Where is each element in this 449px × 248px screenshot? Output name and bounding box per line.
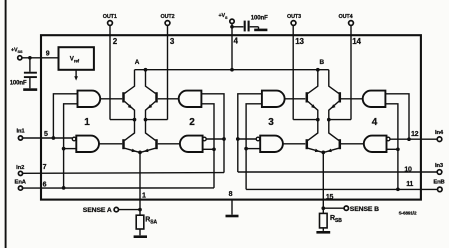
pin 5 xyxy=(44,131,48,138)
wire OUT4 pin 14 xyxy=(329,25,351,119)
pin 4 xyxy=(234,37,239,46)
and gate 2 xyxy=(179,91,202,128)
wire In2 pin 7 xyxy=(23,94,226,174)
IC outline box xyxy=(41,35,421,199)
svg-text:RSA: RSA xyxy=(145,217,157,226)
transistor Q1 (upper left, bridge) xyxy=(124,70,135,120)
and gate 4' (lower driver) xyxy=(364,136,390,152)
terminal In3 xyxy=(435,163,444,174)
terminal OUT1 xyxy=(103,14,117,26)
ground (Vs cap) xyxy=(254,29,267,32)
and gate 3' (lower driver) xyxy=(256,136,283,152)
pin 7 xyxy=(43,164,47,171)
svg-text:OUT3: OUT3 xyxy=(287,14,301,20)
wire GND pin 8 xyxy=(231,200,233,215)
and gate 3 xyxy=(262,91,285,128)
svg-text:2: 2 xyxy=(113,37,118,46)
wire emitter junction to sense xyxy=(321,151,325,209)
svg-text:A: A xyxy=(135,59,140,66)
transistor Q5 (upper left, bridge) xyxy=(307,70,318,120)
svg-text:6: 6 xyxy=(43,181,47,188)
svg-text:15: 15 xyxy=(326,194,334,201)
terminal In4 xyxy=(435,130,444,142)
pin 9 xyxy=(46,50,50,57)
terminal +Vss xyxy=(11,47,23,60)
and gate 1' (lower driver) xyxy=(72,136,99,152)
pin 1 xyxy=(142,192,146,199)
Vref output arrow xyxy=(74,70,78,81)
wire sense A xyxy=(119,208,142,212)
svg-text:2: 2 xyxy=(189,117,195,128)
terminal OUT2 xyxy=(161,14,175,26)
wire gate1 output to Q1 base xyxy=(100,98,122,100)
resistor RSB xyxy=(320,208,343,231)
wire gate1' output to Q3 base xyxy=(99,143,122,145)
wire gate2 output to Q2 base xyxy=(158,98,179,100)
terminal In1 xyxy=(16,129,25,140)
wire EnB pin 11 xyxy=(244,104,437,191)
ground (RSB) xyxy=(316,231,330,234)
svg-text:9: 9 xyxy=(46,50,50,57)
svg-text:+VSS: +VSS xyxy=(11,47,23,54)
wire In1 pin 5 xyxy=(23,94,78,140)
ground (Vss cap) xyxy=(23,88,37,91)
wire gate3' output to Q7 base xyxy=(283,143,305,145)
pin 6 xyxy=(43,181,47,188)
pin 11 xyxy=(406,181,413,188)
terminal EnB xyxy=(433,179,444,191)
terminal EnA xyxy=(15,180,27,191)
pin 2 xyxy=(113,37,118,46)
wire output tee xyxy=(133,118,148,122)
wire OUT2 pin 3 xyxy=(146,25,168,119)
svg-text:11: 11 xyxy=(406,181,413,188)
wire emitter junction to sense xyxy=(138,151,142,210)
svg-text:13: 13 xyxy=(295,37,304,46)
svg-text:1: 1 xyxy=(84,117,90,128)
svg-text:OUT4: OUT4 xyxy=(339,14,353,20)
svg-text:In3: In3 xyxy=(435,163,444,169)
svg-text:RSB: RSB xyxy=(330,215,342,224)
svg-text:12: 12 xyxy=(411,131,419,138)
transistor Q2 (upper right, bridge) xyxy=(146,70,157,120)
svg-text:Vref: Vref xyxy=(70,56,80,64)
and gate 1 xyxy=(78,91,101,128)
svg-text:100nF: 100nF xyxy=(251,15,268,21)
terminal SENSE B xyxy=(344,206,379,213)
svg-text:EnA: EnA xyxy=(15,180,27,186)
ground (pin 8) xyxy=(226,215,239,218)
node A xyxy=(135,59,140,66)
wire gate4 output to Q6 base xyxy=(341,98,363,100)
svg-text:7: 7 xyxy=(43,164,47,171)
wire sense B xyxy=(321,206,344,210)
svg-text:S-6891/2: S-6891/2 xyxy=(399,210,417,215)
transistor Q8 (lower right, bridge) xyxy=(324,120,340,154)
terminal SENSE A xyxy=(83,207,119,214)
transistor Q4 (lower right, bridge) xyxy=(140,120,156,154)
wire gate2' output to Q4 base xyxy=(158,143,180,145)
pin 3 xyxy=(170,37,175,46)
capacitor 100nF (Vss) xyxy=(10,58,37,89)
wire gate3 output to Q5 base xyxy=(285,98,306,100)
ground (RSA) xyxy=(134,235,147,238)
transistor Q3 (lower left, bridge) xyxy=(124,120,140,154)
svg-text:14: 14 xyxy=(352,37,361,46)
wire In3 pin 10 xyxy=(236,94,437,172)
and gate 4 xyxy=(363,91,386,128)
and gate 2' (lower driver) xyxy=(180,136,206,152)
capacitor 100nF (Vs) xyxy=(245,15,268,31)
node B xyxy=(320,59,325,66)
terminal +Vs xyxy=(219,13,235,23)
terminal OUT4 xyxy=(339,14,354,26)
svg-text:4: 4 xyxy=(372,117,378,128)
svg-text:5: 5 xyxy=(44,131,48,138)
wire output tee xyxy=(316,118,331,122)
svg-text:SENSE B: SENSE B xyxy=(350,206,379,213)
pin 12 xyxy=(411,131,419,138)
svg-text:10: 10 xyxy=(404,166,412,173)
wire EnA pin 6 xyxy=(23,104,216,190)
wire In4 pin 12 xyxy=(385,94,437,141)
svg-text:OUT1: OUT1 xyxy=(103,14,117,20)
svg-text:OUT2: OUT2 xyxy=(161,14,175,20)
svg-text:1: 1 xyxy=(142,192,146,199)
wire OUT3 pin 13 xyxy=(293,25,318,119)
pin 8 xyxy=(229,191,233,198)
resistor RSA xyxy=(136,210,157,236)
pin 15 xyxy=(326,194,334,201)
svg-text:3: 3 xyxy=(268,117,274,128)
svg-text:B: B xyxy=(320,59,325,66)
pin 10 xyxy=(404,166,412,173)
pin 13 xyxy=(295,37,304,46)
wire +Vs pin 4 xyxy=(230,24,243,70)
wire +Vss pin 9 xyxy=(22,56,59,60)
svg-text:4: 4 xyxy=(234,37,239,46)
transistor Q7 (lower left, bridge) xyxy=(307,120,323,154)
terminal In2 xyxy=(16,165,24,176)
wire +Vs internal rail xyxy=(135,68,329,72)
svg-text:In1: In1 xyxy=(16,129,25,135)
svg-text:In2: In2 xyxy=(16,165,24,171)
svg-text:8: 8 xyxy=(229,191,233,198)
svg-text:EnB: EnB xyxy=(433,179,444,185)
svg-text:3: 3 xyxy=(170,37,175,46)
svg-text:In4: In4 xyxy=(435,130,444,136)
terminal OUT3 xyxy=(287,14,301,26)
svg-text:SENSE A: SENSE A xyxy=(83,207,112,214)
wire gate4' output to Q8 base xyxy=(341,143,364,145)
svg-text:+VS: +VS xyxy=(219,13,229,20)
wire OUT1 pin 2 xyxy=(110,25,135,119)
transistor Q6 (upper right, bridge) xyxy=(329,70,340,120)
svg-text:100nF: 100nF xyxy=(10,81,27,87)
voltage reference U-Vref xyxy=(59,47,94,70)
pin 14 xyxy=(352,37,361,46)
